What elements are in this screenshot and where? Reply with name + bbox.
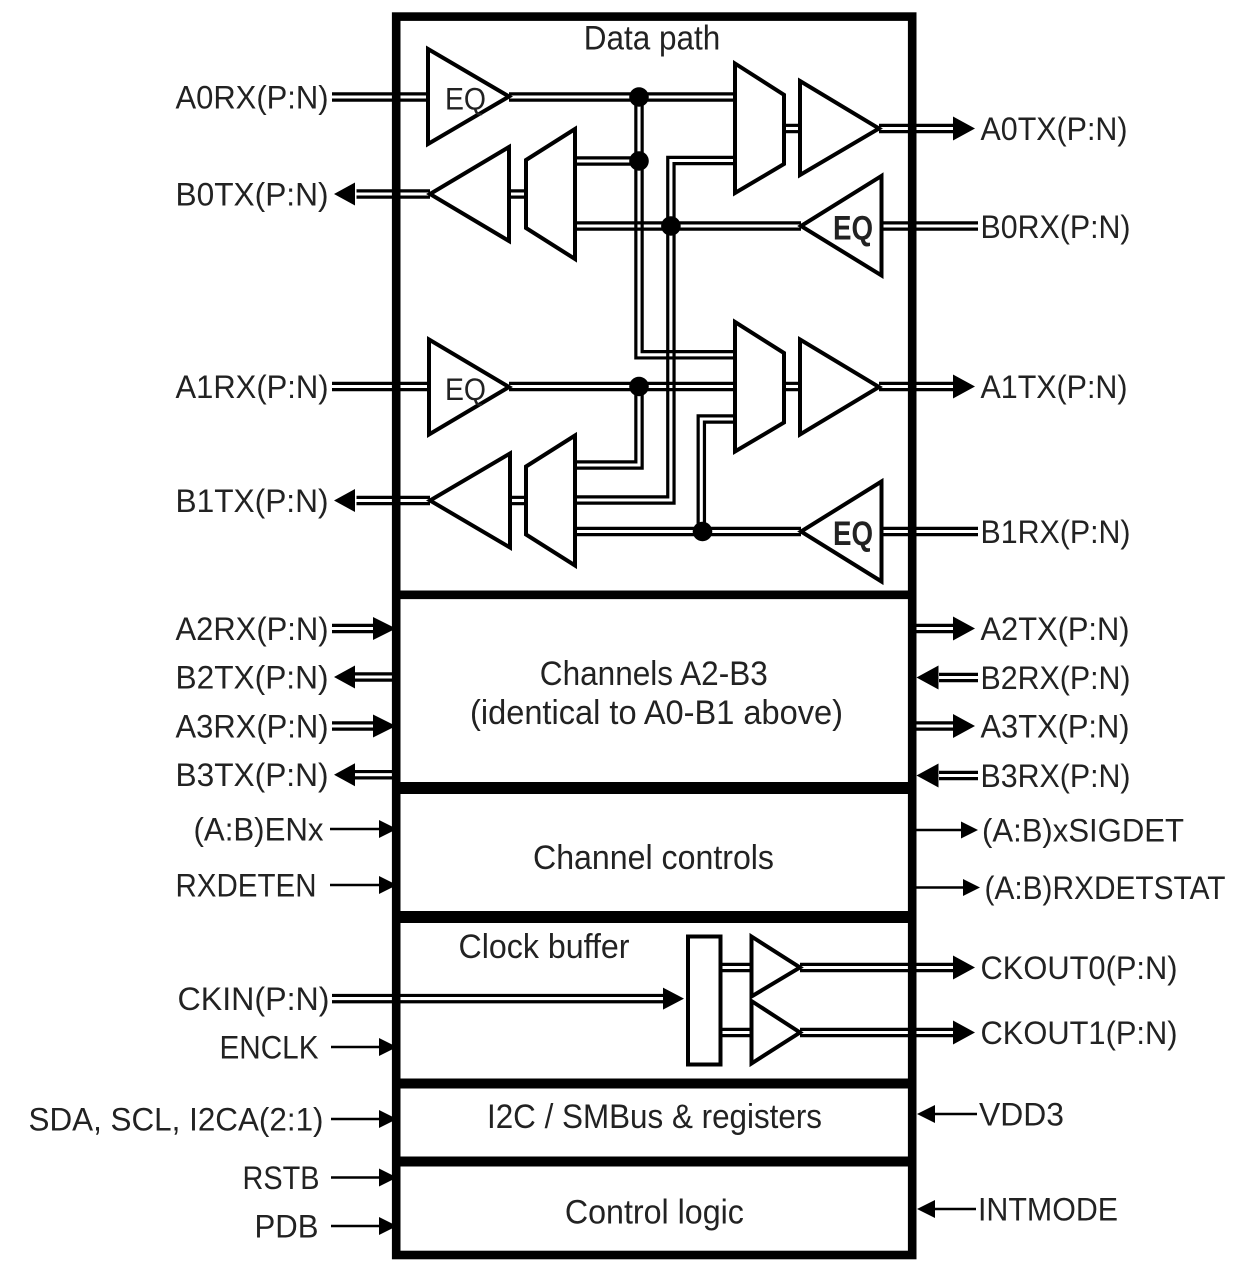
wire V2 B0RX crossover bbox=[575, 157, 735, 503]
wire A0RX input pair bbox=[332, 94, 429, 100]
svg-text:RXDETEN: RXDETEN bbox=[176, 868, 317, 904]
wire A3RX pair bbox=[332, 723, 374, 729]
arrow RXDETEN into box bbox=[379, 876, 397, 894]
arrow PDB into box bbox=[379, 1217, 397, 1235]
wire mux B1 to driver pair bbox=[510, 497, 526, 503]
clock buffer 0 bbox=[752, 937, 801, 997]
wire clock block to buffer 0 bbox=[721, 964, 752, 970]
arrow CKOUT1 bbox=[953, 1021, 975, 1045]
driver A1TX bbox=[800, 340, 879, 435]
arrow A1TX bbox=[953, 375, 975, 399]
arrow B3RX into box bbox=[917, 764, 939, 788]
svg-text:Clock buffer: Clock buffer bbox=[459, 928, 630, 966]
junction D4 A1RX node bbox=[629, 377, 649, 397]
arrow SDA SCL I2CA into box bbox=[379, 1110, 397, 1128]
wire mux B0 to driver pair bbox=[510, 191, 527, 197]
arrow ENCLK into box bbox=[379, 1038, 397, 1056]
wire B3TX pair bbox=[355, 772, 400, 778]
svg-text:B2TX(P:N): B2TX(P:N) bbox=[176, 660, 329, 696]
svg-text:A3TX(P:N): A3TX(P:N) bbox=[981, 709, 1130, 745]
svg-text:Channel controls: Channel controls bbox=[533, 839, 774, 877]
outer block frame bbox=[396, 17, 912, 1255]
arrow (A:B)xSIGDET bbox=[961, 822, 978, 839]
arrow B3TX bbox=[334, 763, 355, 786]
equalizer EQ A1 bbox=[429, 340, 509, 435]
svg-text:Control logic: Control logic bbox=[565, 1194, 744, 1232]
junction D5 B1RX node bbox=[693, 522, 713, 542]
svg-text:CKIN(P:N): CKIN(P:N) bbox=[178, 981, 330, 1017]
wire A2RX pair bbox=[332, 625, 374, 631]
arrow A2TX bbox=[953, 617, 975, 641]
mux A1 bbox=[735, 322, 784, 452]
arrow B2TX bbox=[334, 666, 355, 689]
wire A0TX output pair bbox=[879, 125, 953, 131]
svg-text:B1RX(P:N): B1RX(P:N) bbox=[981, 514, 1131, 550]
clock input block bbox=[688, 937, 721, 1065]
svg-text:A0TX(P:N): A0TX(P:N) bbox=[981, 111, 1128, 147]
wire B3RX pair bbox=[939, 772, 978, 778]
wire PDB bbox=[331, 1225, 379, 1228]
svg-text:B3RX(P:N): B3RX(P:N) bbox=[981, 758, 1131, 794]
arrow CKOUT0 bbox=[953, 956, 975, 980]
arrow VDD3 into box bbox=[917, 1105, 935, 1123]
wire V3 B1RX loopback to A1 mux bbox=[698, 416, 735, 532]
svg-text:B3TX(P:N): B3TX(P:N) bbox=[176, 757, 329, 793]
svg-text:SDA, SCL, I2CA(2:1): SDA, SCL, I2CA(2:1) bbox=[29, 1102, 324, 1138]
wire RXDETEN bbox=[330, 884, 379, 887]
svg-text:A2TX(P:N): A2TX(P:N) bbox=[981, 611, 1130, 647]
wire B1RX equalized pair bbox=[575, 528, 801, 534]
svg-text:A1RX(P:N): A1RX(P:N) bbox=[176, 369, 329, 405]
wire A3TX pair bbox=[908, 723, 953, 729]
wire INTMODE bbox=[935, 1208, 976, 1211]
separator channels / channel controls bbox=[392, 782, 917, 794]
wire clock block to buffer 1 bbox=[721, 1029, 752, 1035]
arrow A2RX into box bbox=[373, 617, 396, 640]
arrow A3RX into box bbox=[373, 715, 396, 738]
wire D2 to B0 mux pair bbox=[575, 158, 639, 164]
svg-text:B1TX(P:N): B1TX(P:N) bbox=[176, 483, 329, 519]
wire RSTB bbox=[331, 1176, 379, 1179]
svg-text:(A:B)RXDETSTAT: (A:B)RXDETSTAT bbox=[985, 870, 1226, 906]
separator data path / channels box bbox=[392, 590, 917, 599]
svg-text:EQ: EQ bbox=[833, 210, 873, 248]
svg-text:Data path: Data path bbox=[584, 20, 721, 58]
arrow B2RX into box bbox=[917, 666, 939, 690]
equalizer EQ A0 bbox=[428, 49, 509, 144]
driver B0TX bbox=[430, 147, 509, 241]
separator I2C / control logic bbox=[392, 1157, 917, 1167]
wire A1TX output pair bbox=[879, 383, 953, 389]
wire A1RX equalized pair bbox=[509, 383, 735, 389]
wire mux A1 to driver pair bbox=[784, 383, 800, 389]
svg-text:A1TX(P:N): A1TX(P:N) bbox=[981, 369, 1128, 405]
svg-text:CKOUT1(P:N): CKOUT1(P:N) bbox=[981, 1015, 1178, 1051]
wire A1RX input pair bbox=[332, 383, 430, 389]
wire ENCLK bbox=[331, 1046, 379, 1049]
svg-text:Channels A2-B3: Channels A2-B3 bbox=[540, 655, 768, 693]
arrow B0TX bbox=[334, 183, 355, 206]
wire CKOUT0 pair bbox=[800, 964, 953, 970]
wire B2TX pair bbox=[355, 674, 400, 680]
wire SDA SCL I2CA bbox=[331, 1118, 379, 1121]
wire VDD3 bbox=[935, 1113, 977, 1116]
wire V4 A1RX loopback to B1 mux bbox=[575, 387, 642, 469]
svg-text:CKOUT0(P:N): CKOUT0(P:N) bbox=[981, 950, 1178, 986]
equalizer EQ B0 bbox=[801, 176, 882, 276]
svg-text:B2RX(P:N): B2RX(P:N) bbox=[981, 660, 1131, 696]
arrow A3TX bbox=[953, 714, 975, 738]
svg-text:I2C / SMBus & registers: I2C / SMBus & registers bbox=[487, 1098, 822, 1136]
svg-text:A0RX(P:N): A0RX(P:N) bbox=[176, 80, 329, 116]
junction D1 A0RX node bbox=[629, 87, 649, 107]
wire B1RX input pair bbox=[881, 528, 978, 534]
svg-text:(identical to A0-B1 above): (identical to A0-B1 above) bbox=[470, 694, 843, 732]
mux B0 bbox=[526, 129, 575, 259]
svg-text:EQ: EQ bbox=[445, 371, 486, 407]
svg-text:B0TX(P:N): B0TX(P:N) bbox=[176, 177, 329, 213]
wire B0TX output pair bbox=[357, 191, 431, 197]
svg-text:PDB: PDB bbox=[255, 1209, 319, 1245]
separator channel controls / clock buffer bbox=[392, 911, 917, 923]
arrow B1TX bbox=[334, 489, 355, 512]
wire (A:B)ENx bbox=[330, 828, 379, 831]
driver B1TX bbox=[430, 454, 510, 548]
svg-text:(A:B)xSIGDET: (A:B)xSIGDET bbox=[982, 813, 1184, 849]
svg-text:(A:B)ENx: (A:B)ENx bbox=[194, 812, 324, 848]
svg-text:ENCLK: ENCLK bbox=[220, 1030, 319, 1066]
mux B1 bbox=[526, 436, 575, 566]
svg-text:A3RX(P:N): A3RX(P:N) bbox=[176, 709, 329, 745]
wire CKIN pair bbox=[332, 995, 664, 1001]
arrow (A:B)RXDETSTAT bbox=[963, 879, 980, 896]
wire B0RX input pair bbox=[881, 223, 978, 229]
arrow RSTB into box bbox=[379, 1169, 397, 1187]
wire (A:B)xSIGDET bbox=[912, 829, 961, 832]
svg-text:RSTB: RSTB bbox=[243, 1160, 320, 1196]
wire V1 A0RX crossover to A1 mux bbox=[636, 97, 735, 358]
svg-text:EQ: EQ bbox=[833, 515, 873, 553]
wire CKOUT1 pair bbox=[800, 1029, 953, 1035]
driver A0TX bbox=[800, 81, 879, 175]
svg-text:VDD3: VDD3 bbox=[979, 1097, 1064, 1133]
wire mux A0 to driver pair bbox=[784, 125, 800, 131]
junction D2 on V1 bbox=[629, 151, 649, 171]
arrow (A:B)ENx into box bbox=[379, 820, 397, 838]
wire B0RX equalized pair bbox=[575, 223, 801, 229]
equalizer EQ B1 bbox=[801, 482, 882, 582]
arrow INTMODE into box bbox=[917, 1200, 935, 1218]
svg-text:INTMODE: INTMODE bbox=[978, 1192, 1118, 1228]
wire A0RX equalized pair bbox=[509, 94, 735, 100]
svg-text:A2RX(P:N): A2RX(P:N) bbox=[176, 611, 329, 647]
svg-text:B0RX(P:N): B0RX(P:N) bbox=[981, 209, 1131, 245]
wire A2TX pair bbox=[908, 625, 953, 631]
wire B1TX output pair bbox=[357, 497, 431, 503]
wire B2RX pair bbox=[939, 674, 978, 680]
wire (A:B)RXDETSTAT bbox=[912, 886, 963, 889]
arrow A0TX bbox=[953, 117, 975, 141]
mux A0 bbox=[735, 64, 784, 194]
junction D3 B0RX node bbox=[661, 216, 681, 236]
separator clock buffer / I2C bbox=[392, 1079, 917, 1089]
arrow CKIN into clock block bbox=[663, 988, 684, 1010]
clock buffer 1 bbox=[752, 1001, 801, 1064]
svg-text:EQ: EQ bbox=[445, 81, 486, 117]
